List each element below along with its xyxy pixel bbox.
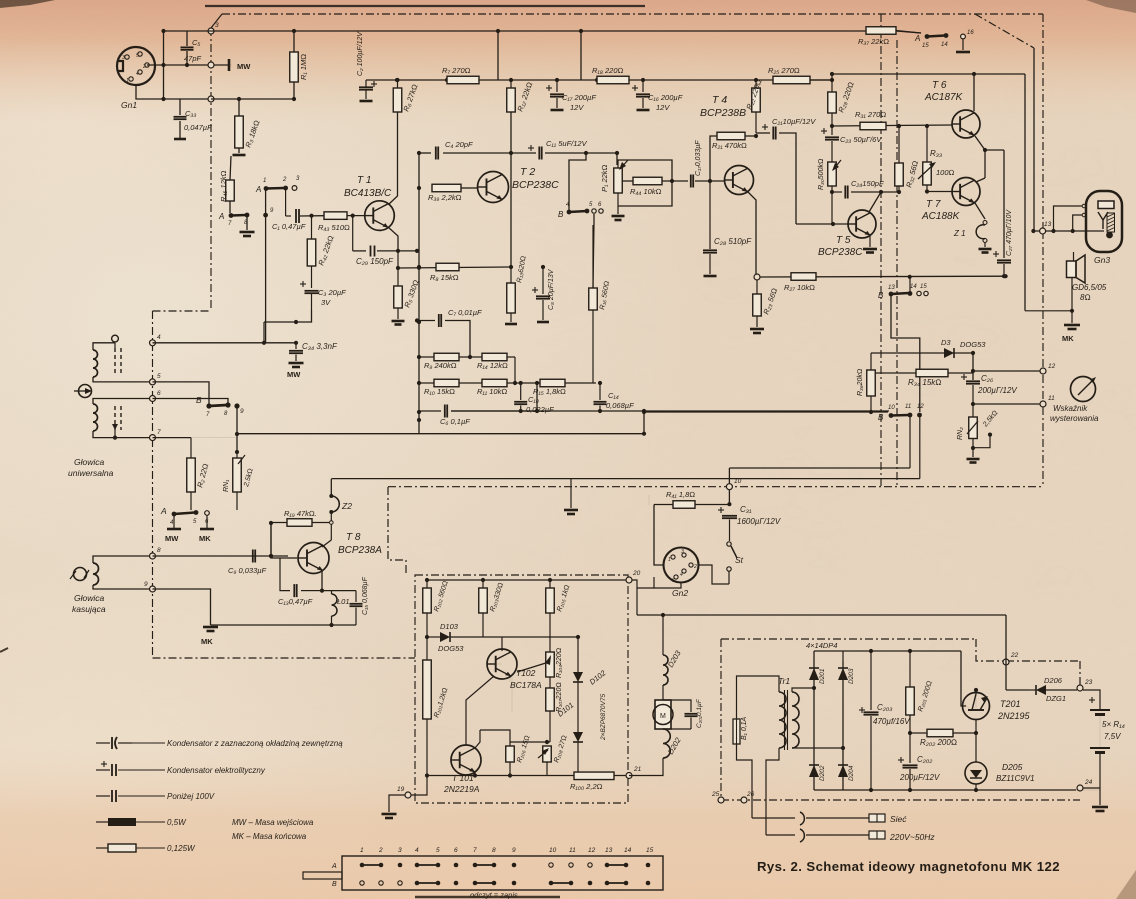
wire rail1b bbox=[896, 31, 921, 33]
diode D102 bbox=[577, 637, 579, 672]
svg-text:15: 15 bbox=[922, 43, 929, 49]
svg-text:R₄₁ 1,8Ω: R₄₁ 1,8Ω bbox=[666, 490, 695, 499]
svg-text:Z 1: Z 1 bbox=[953, 229, 966, 238]
transistor T8 bbox=[298, 543, 329, 574]
wire T2 column bbox=[510, 112, 512, 267]
wire T7 base row bbox=[927, 191, 952, 193]
svg-text:C₁₄: C₁₄ bbox=[608, 391, 619, 400]
svg-text:Kondensator z zaznaczoną okład: Kondensator z zaznaczoną okładziną zewnę… bbox=[167, 739, 343, 748]
wire bbox=[976, 789, 1080, 791]
svg-text:3: 3 bbox=[398, 847, 402, 854]
resistor R39 bbox=[432, 184, 461, 192]
svg-text:D201: D201 bbox=[819, 668, 826, 684]
shield chain rec boundary bbox=[388, 486, 1043, 488]
potentiometer R33 bbox=[926, 126, 928, 162]
wire Z2 column bbox=[330, 479, 332, 496]
shield chain psu corner bbox=[976, 639, 1006, 661]
svg-text:R₁₄ 12kΩ: R₁₄ 12kΩ bbox=[477, 361, 508, 370]
ground bbox=[246, 217, 248, 230]
wire T6e-T7c junction bbox=[975, 136, 985, 150]
ground MK speaker bbox=[1071, 311, 1073, 323]
resistor R34 bbox=[916, 369, 948, 377]
wire bbox=[296, 310, 312, 322]
node 6 bbox=[150, 396, 156, 402]
wire speaker gnd bbox=[1071, 278, 1073, 311]
wire bbox=[211, 98, 294, 100]
svg-text:P₁ 22kΩ: P₁ 22kΩ bbox=[600, 164, 609, 192]
svg-text:25: 25 bbox=[711, 791, 720, 798]
wire bbox=[173, 514, 175, 528]
wire jog644 bbox=[643, 411, 645, 434]
potentiometer RN2 bbox=[969, 417, 978, 439]
svg-text:11: 11 bbox=[1048, 395, 1055, 402]
wire out vertical bbox=[1024, 74, 1026, 311]
capacitor C23 bbox=[831, 126, 833, 135]
junction bbox=[670, 179, 674, 183]
svg-text:4: 4 bbox=[680, 572, 683, 578]
svg-text:MW: MW bbox=[165, 534, 179, 543]
resistor R22 bbox=[755, 80, 757, 88]
svg-text:T 6: T 6 bbox=[932, 80, 947, 91]
capacitor C11 bbox=[528, 147, 534, 149]
svg-text:wysterowania: wysterowania bbox=[1050, 414, 1099, 423]
svg-text:kasująca: kasująca bbox=[72, 604, 106, 614]
wire t102 c bbox=[509, 677, 511, 682]
wire T8 base bbox=[288, 557, 297, 559]
junction bbox=[830, 190, 834, 194]
transistor T5 bbox=[848, 210, 876, 238]
svg-text:2×BZP6870V75: 2×BZP6870V75 bbox=[600, 694, 607, 741]
legend res 05W bbox=[96, 821, 108, 823]
svg-text:D103: D103 bbox=[440, 622, 459, 631]
wire output tap bbox=[985, 149, 1004, 151]
svg-text:C₅: C₅ bbox=[192, 38, 200, 47]
svg-text:C₁₆ 200µF: C₁₆ 200µF bbox=[648, 93, 683, 102]
svg-text:16: 16 bbox=[967, 30, 974, 36]
svg-text:D205: D205 bbox=[1002, 762, 1023, 772]
shield chain right v1 bbox=[880, 14, 882, 487]
node 23 bbox=[1077, 685, 1083, 691]
resistor R100 bbox=[574, 772, 614, 780]
svg-text:Z2: Z2 bbox=[341, 501, 352, 511]
wire primary bbox=[737, 744, 753, 818]
wire gn2 left bbox=[654, 505, 663, 566]
svg-text:MW: MW bbox=[287, 370, 301, 379]
head screen dashes bbox=[114, 348, 116, 375]
svg-text:C₁ 0,47µF: C₁ 0,47µF bbox=[272, 222, 306, 231]
connector Gn3 bbox=[1086, 191, 1122, 252]
diode D101 bbox=[577, 700, 579, 732]
wire bbox=[388, 227, 398, 251]
legend res 0125W bbox=[96, 847, 108, 849]
wire gn2 bottom bbox=[654, 577, 681, 588]
wire R8 row bbox=[398, 267, 511, 268]
svg-text:24: 24 bbox=[1084, 779, 1093, 786]
wire T5 base row bbox=[796, 223, 848, 225]
diode D103 bbox=[427, 636, 440, 638]
capacitor C34 bbox=[295, 343, 297, 349]
svg-text:BCP238C: BCP238C bbox=[818, 247, 863, 258]
resistor R202 bbox=[927, 729, 953, 737]
svg-text:14: 14 bbox=[624, 847, 632, 854]
capacitor C7 bbox=[417, 320, 435, 322]
resistor R23 bbox=[756, 280, 758, 294]
svg-text:T 1: T 1 bbox=[357, 175, 371, 186]
erase head winding bbox=[93, 563, 99, 585]
svg-text:4×14DP4: 4×14DP4 bbox=[806, 641, 837, 650]
resistor R37 bbox=[866, 27, 896, 35]
svg-text:13: 13 bbox=[1044, 221, 1052, 228]
svg-text:12V: 12V bbox=[656, 103, 670, 112]
svg-text:M: M bbox=[660, 713, 666, 720]
wire T201 bbox=[975, 690, 977, 694]
svg-text:9: 9 bbox=[144, 581, 148, 588]
svg-text:8: 8 bbox=[492, 847, 496, 854]
diode D3 bbox=[944, 348, 954, 358]
potentiometer R104 bbox=[549, 648, 551, 652]
resistor R32 bbox=[898, 126, 900, 163]
wire bbox=[147, 64, 229, 66]
svg-text:19: 19 bbox=[397, 786, 405, 793]
svg-text:RN₂: RN₂ bbox=[957, 427, 964, 440]
svg-text:B: B bbox=[878, 413, 884, 422]
svg-text:Wskaźnik: Wskaźnik bbox=[1053, 404, 1088, 413]
wire rec bus434 bbox=[237, 433, 644, 435]
coil Z1 bbox=[975, 203, 985, 219]
junction bbox=[642, 410, 646, 414]
svg-text:2: 2 bbox=[282, 177, 287, 183]
fuse B01A bbox=[737, 676, 780, 719]
svg-text:R₁ 1MΩ: R₁ 1MΩ bbox=[299, 54, 308, 80]
diode D201 bbox=[809, 668, 819, 680]
svg-text:8: 8 bbox=[157, 547, 161, 554]
resistor R3 bbox=[238, 99, 240, 116]
wire node7 to R2 bbox=[153, 437, 192, 439]
legend cap small bbox=[96, 795, 110, 797]
universal head winding 1 bbox=[93, 350, 98, 377]
capacitor C17 supply bbox=[556, 80, 558, 92]
meter bbox=[1071, 377, 1096, 402]
bridge left col bbox=[813, 651, 815, 790]
capacitor C31 bbox=[718, 509, 724, 511]
svg-text:47pF: 47pF bbox=[184, 54, 202, 63]
svg-text:R₂₁ 470kΩ: R₂₁ 470kΩ bbox=[712, 141, 747, 150]
svg-text:11: 11 bbox=[569, 847, 576, 854]
coil L01 bbox=[332, 594, 338, 616]
connector strip box bbox=[342, 856, 663, 890]
legend cap outer plate bbox=[96, 742, 110, 744]
choke D203 bbox=[663, 655, 668, 685]
capacitor C5 bbox=[186, 31, 188, 46]
capacitor C10 bbox=[520, 383, 522, 400]
wire bbox=[263, 322, 265, 343]
node on chain bbox=[208, 96, 214, 102]
svg-text:1: 1 bbox=[126, 78, 129, 84]
shield chain right inner diag bbox=[975, 14, 1034, 48]
svg-text:B: B bbox=[878, 291, 884, 300]
resistor R15 bbox=[540, 379, 565, 387]
svg-text:R₂₇ 10kΩ: R₂₇ 10kΩ bbox=[784, 283, 815, 292]
wire node5 bbox=[153, 382, 210, 405]
svg-text:A: A bbox=[218, 212, 224, 221]
svg-text:0,5W: 0,5W bbox=[167, 818, 187, 827]
ground MK bbox=[200, 528, 214, 531]
capacitor C17 coupling bbox=[690, 175, 692, 188]
transistor T7 bbox=[952, 178, 980, 206]
resistor R21 bbox=[710, 136, 717, 181]
svg-text:R₁₁ 10kΩ: R₁₁ 10kΩ bbox=[477, 387, 507, 396]
capacitor C8 bbox=[542, 267, 544, 294]
svg-text:C₃ 20µF: C₃ 20µF bbox=[318, 288, 346, 297]
svg-text:23: 23 bbox=[1084, 679, 1093, 686]
svg-text:9: 9 bbox=[240, 408, 244, 415]
transistor T4 bbox=[725, 166, 754, 195]
svg-text:T 101: T 101 bbox=[452, 773, 474, 783]
svg-text:5: 5 bbox=[136, 53, 139, 59]
svg-text:8Ω: 8Ω bbox=[1080, 293, 1091, 302]
svg-text:D206: D206 bbox=[1044, 676, 1063, 685]
wire bbox=[810, 79, 832, 81]
svg-text:Ł01: Ł01 bbox=[337, 597, 350, 606]
svg-text:10: 10 bbox=[888, 405, 895, 411]
junction bbox=[309, 214, 313, 218]
junction bbox=[830, 72, 834, 76]
svg-text:9: 9 bbox=[512, 847, 516, 854]
wire bbox=[397, 251, 399, 268]
ground bbox=[617, 206, 619, 214]
resistor R2 bbox=[190, 438, 192, 458]
wire base T1-T2 column bbox=[418, 153, 420, 434]
svg-text:MW: MW bbox=[237, 62, 251, 71]
wire psu bottom bus bbox=[814, 789, 1100, 791]
resistor R16 bbox=[592, 225, 594, 288]
svg-text:A: A bbox=[331, 863, 337, 870]
svg-text:Gn3: Gn3 bbox=[1094, 255, 1110, 265]
capacitor C29 bbox=[352, 216, 354, 251]
svg-text:1600µГ/12V: 1600µГ/12V bbox=[737, 517, 781, 526]
resistor R18 bbox=[597, 76, 629, 84]
wire meter12 bbox=[973, 370, 1040, 372]
pin 16 bbox=[961, 34, 966, 39]
ground mid bbox=[570, 479, 572, 508]
resistor R9 bbox=[434, 353, 459, 361]
resistor R27 bbox=[791, 273, 816, 281]
svg-text:R₈ 15kΩ: R₈ 15kΩ bbox=[430, 273, 459, 282]
wire gn2 to motor bbox=[631, 580, 654, 588]
svg-text:3: 3 bbox=[215, 22, 219, 29]
svg-text:0,068µF: 0,068µF bbox=[606, 401, 634, 410]
svg-text:R₁₀ 15kΩ: R₁₀ 15kΩ bbox=[424, 387, 455, 396]
node 26 bbox=[741, 797, 747, 803]
resistor R25 bbox=[773, 76, 810, 84]
svg-text:A: A bbox=[914, 34, 920, 43]
capacitor C4 bbox=[419, 152, 431, 154]
potentiometer RN1 bbox=[236, 452, 238, 458]
ground battery bbox=[1092, 806, 1108, 809]
resistor R10 bbox=[434, 379, 459, 387]
wire bbox=[550, 636, 578, 638]
svg-text:R₃₇ 22kΩ: R₃₇ 22kΩ bbox=[858, 37, 889, 46]
svg-text:R₃₃: R₃₃ bbox=[930, 149, 942, 158]
svg-text:BCP238B: BCP238B bbox=[700, 107, 746, 119]
svg-text:Tr1: Tr1 bbox=[778, 676, 790, 686]
wire motor feed bbox=[662, 615, 664, 655]
potentiometer P1 bbox=[614, 168, 623, 193]
capacitor C201 bbox=[663, 700, 691, 712]
svg-text:BC178A: BC178A bbox=[510, 680, 542, 690]
shield chain psu to22 bbox=[1006, 660, 1080, 662]
wire gn2 right bbox=[699, 565, 729, 584]
wire d3 top row bbox=[871, 352, 973, 354]
node 9 contact bbox=[234, 403, 239, 408]
junction bbox=[509, 151, 513, 155]
wire Gn3 stub2 bbox=[1073, 215, 1082, 231]
ground MW input bbox=[230, 64, 233, 67]
capacitor C33 bbox=[179, 99, 181, 115]
svg-text:C₁₇ 200µF: C₁₇ 200µF bbox=[562, 93, 596, 102]
diode D206 bbox=[1036, 685, 1046, 695]
capacitor C24 bbox=[832, 191, 842, 193]
svg-text:T 7: T 7 bbox=[926, 199, 941, 210]
junction bbox=[831, 222, 835, 226]
wire bus478 bbox=[331, 478, 920, 480]
wire bbox=[976, 789, 1076, 791]
erase head symbol bbox=[74, 568, 87, 581]
resistor R105 bbox=[549, 580, 551, 588]
svg-text:100Ω: 100Ω bbox=[936, 168, 955, 177]
capacitor C21 bbox=[756, 132, 770, 134]
svg-text:MW – Masa wejściowa: MW – Masa wejściowa bbox=[232, 818, 314, 827]
svg-text:15: 15 bbox=[920, 284, 927, 290]
svg-text:AC187K: AC187K bbox=[924, 92, 964, 103]
capacitor C3 bbox=[300, 283, 306, 285]
svg-text:3V: 3V bbox=[321, 298, 331, 307]
svg-text:2: 2 bbox=[693, 564, 697, 570]
svg-text:D202: D202 bbox=[819, 765, 826, 781]
svg-text:C₃₁: C₃₁ bbox=[740, 505, 752, 514]
capacitor C9 bbox=[252, 550, 254, 563]
transistor T201 bbox=[963, 693, 990, 720]
svg-text:BCP238C: BCP238C bbox=[512, 179, 559, 191]
capacitor C26 bbox=[972, 353, 974, 380]
junction bbox=[535, 381, 539, 385]
svg-text:Gn2: Gn2 bbox=[672, 588, 688, 598]
resistor R43 bbox=[324, 212, 347, 220]
svg-text:13: 13 bbox=[888, 285, 895, 291]
wire bbox=[163, 31, 165, 99]
svg-text:R₃₆20kΩ: R₃₆20kΩ bbox=[857, 369, 864, 396]
svg-text:R₄₅ 12kΩ: R₄₅ 12kΩ bbox=[219, 170, 228, 202]
potentiometer R36 bbox=[867, 370, 876, 396]
svg-text:A: A bbox=[255, 185, 261, 194]
strip row A contacts bbox=[360, 863, 365, 868]
wire C27 column bbox=[1003, 150, 1005, 258]
svg-text:D3: D3 bbox=[941, 338, 951, 347]
choke D202 bbox=[663, 729, 670, 758]
resistor R12 bbox=[510, 80, 512, 88]
wire bbox=[909, 277, 911, 294]
svg-text:B: B bbox=[332, 881, 337, 888]
svg-text:R₃₁ 270Ω: R₃₁ 270Ω bbox=[855, 110, 886, 119]
svg-text:5: 5 bbox=[672, 578, 675, 584]
capacitor C16 bbox=[642, 80, 644, 92]
diode D203r bbox=[838, 668, 848, 680]
capacitor C14 bbox=[599, 383, 601, 400]
universal head winding 2 bbox=[93, 404, 98, 431]
head terminal bbox=[112, 335, 119, 342]
wire sw11 down bbox=[909, 415, 911, 468]
svg-text:C₂₇ 470µГ/10V: C₂₇ 470µГ/10V bbox=[1006, 209, 1013, 256]
junction bbox=[754, 134, 758, 138]
svg-text:R₂₀₂ 200Ω: R₂₀₂ 200Ω bbox=[920, 738, 957, 747]
wire T4 collector bbox=[748, 192, 756, 274]
svg-text:DOG53: DOG53 bbox=[960, 340, 986, 349]
wire bbox=[593, 214, 595, 225]
node 11 bbox=[1040, 401, 1046, 407]
legend cap electrolytic bbox=[96, 769, 110, 771]
junction bbox=[519, 409, 523, 413]
wire r34 row bbox=[871, 372, 973, 374]
junction bbox=[417, 151, 421, 155]
svg-text:B: B bbox=[196, 395, 202, 405]
connector Gn2 bbox=[664, 548, 699, 583]
svg-text:0,047µF: 0,047µF bbox=[184, 123, 212, 132]
wire R31 row bbox=[832, 125, 952, 126]
svg-text:C₁₃0,47µF: C₁₃0,47µF bbox=[278, 597, 313, 606]
svg-text:R₁₀₀ 2,2Ω: R₁₀₀ 2,2Ω bbox=[570, 782, 603, 791]
svg-text:C₂₈ 510pF: C₂₈ 510pF bbox=[714, 237, 752, 246]
svg-text:C₂₆: C₂₆ bbox=[981, 374, 994, 383]
wire sw12 down bbox=[919, 415, 921, 479]
ground bbox=[869, 236, 871, 247]
wire B13 loop bbox=[891, 296, 920, 412]
transistor T101 bbox=[451, 745, 481, 775]
svg-text:R₁₈ 220Ω: R₁₈ 220Ω bbox=[592, 66, 624, 75]
wire bbox=[586, 153, 617, 165]
resistor R44 bbox=[622, 180, 633, 182]
wire supply614 bbox=[648, 495, 650, 505]
mains plug bbox=[752, 817, 795, 819]
shield chain psu top bbox=[721, 638, 976, 640]
node 20 bbox=[626, 577, 632, 583]
shield chain motor box bbox=[415, 575, 628, 803]
resistor R42 bbox=[311, 216, 313, 239]
motor M bbox=[662, 685, 664, 700]
wire T6 collector bbox=[973, 74, 975, 111]
junction bbox=[708, 179, 712, 183]
svg-text:C₃₃: C₃₃ bbox=[185, 109, 196, 118]
wire bbox=[389, 112, 398, 204]
svg-text:B₁ 0,1A: B₁ 0,1A bbox=[741, 716, 748, 740]
battery 5xR14 bbox=[1083, 690, 1100, 705]
junction bbox=[468, 355, 472, 359]
svg-text:26: 26 bbox=[746, 791, 755, 798]
potentiometer R30 bbox=[828, 162, 837, 186]
junction bbox=[908, 275, 912, 279]
svg-text:12V: 12V bbox=[570, 103, 584, 112]
svg-text:T 2: T 2 bbox=[520, 166, 535, 178]
svg-text:C₁₅ 0,068µF: C₁₅ 0,068µF bbox=[362, 576, 369, 615]
svg-text:DOG53: DOG53 bbox=[438, 644, 464, 653]
svg-text:200µF/12V: 200µF/12V bbox=[899, 773, 940, 782]
svg-text:R₄₃ 510Ω: R₄₃ 510Ω bbox=[318, 223, 350, 232]
node 5 bbox=[150, 379, 156, 385]
svg-text:2: 2 bbox=[378, 847, 383, 854]
svg-text:BZ11C9V1: BZ11C9V1 bbox=[996, 774, 1035, 783]
svg-text:Poniżej 100V: Poniżej 100V bbox=[167, 792, 215, 801]
wire row357 bbox=[419, 356, 515, 358]
svg-text:C₇ 0,01µF: C₇ 0,01µF bbox=[448, 308, 482, 317]
